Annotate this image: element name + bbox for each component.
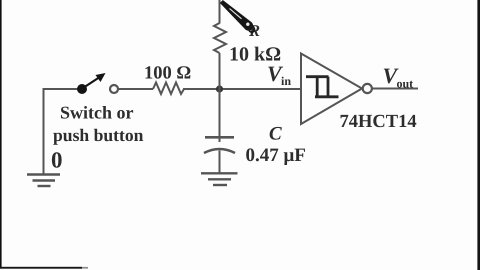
svg-text:Switch or: Switch or [60, 103, 134, 123]
hysteresis symbol [306, 77, 339, 97]
wire output [372, 88, 418, 90]
svg-text:0.47 μF: 0.47 μF [246, 145, 306, 166]
label Vout [383, 63, 414, 91]
resistor R2 100 ohm (horizontal zigzag) [153, 83, 184, 95]
capacitor C bottom plate (curved) [204, 149, 235, 153]
svg-text:C: C [269, 124, 282, 145]
wire top plate lead stub [219, 137, 221, 142]
inverter output bubble [363, 84, 372, 93]
wire resistor to gate input [183, 88, 301, 90]
frame left edge [0, 0, 2, 269]
node junction dot [216, 85, 223, 92]
op-amp U1 74HCT14 inverter triangle [301, 54, 362, 125]
wire left vertical (switch to ground) [43, 89, 45, 174]
svg-text:out: out [397, 77, 414, 91]
wire capacitor to ground [219, 151, 221, 174]
ground (under capacitor) [201, 173, 238, 185]
svg-text:in: in [281, 74, 291, 88]
ground (left, under switch) [27, 175, 60, 187]
label Vin [267, 61, 291, 88]
wire node down to capacitor [219, 89, 221, 137]
frame bottom-left edge [0, 267, 82, 269]
svg-text:74HCT14: 74HCT14 [340, 112, 417, 132]
svg-text:100 Ω: 100 Ω [144, 64, 191, 84]
svg-text:push button: push button [53, 125, 144, 145]
pen cursor (annotation pointer) [220, 0, 255, 32]
wire pull-up top (to supply, off top edge) [219, 0, 221, 24]
switch SW1 lever arrow [83, 78, 99, 89]
wire switch to resistor [119, 88, 154, 90]
svg-text:0: 0 [51, 148, 63, 173]
switch SW1 pole (filled dot) [77, 84, 87, 94]
resistor R1 10k (vertical zigzag) [214, 23, 226, 53]
capacitor C top plate [205, 136, 234, 139]
wire left horizontal (to switch) [43, 88, 79, 90]
frame right edge [477, 0, 480, 270]
wire resistor bottom to node [219, 53, 221, 89]
switch SW1 throw (open circle) [110, 85, 118, 93]
